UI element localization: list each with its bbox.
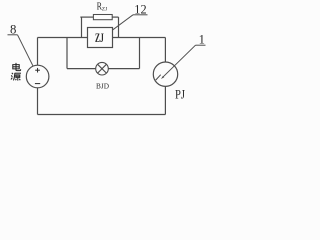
wire lamp branch right horizontal [108, 68, 139, 70]
wire bottom segment [38, 114, 166, 116]
device PJ arrowhead [161, 76, 164, 79]
wire left-top segment [37, 38, 39, 66]
wire right-top segment [164, 38, 166, 63]
svg-text:ZJ: ZJ [95, 31, 104, 45]
svg-text:PJ: PJ [175, 87, 185, 102]
wire right-bottom segment [164, 86, 166, 114]
relay ZJ box [88, 28, 113, 48]
wire top-left segment [38, 37, 88, 39]
callout label 8 [8, 23, 34, 67]
wire resistor left stub [81, 17, 83, 37]
label RZJ [97, 1, 108, 12]
callout label 1 [163, 33, 205, 77]
power source circle [26, 65, 49, 88]
wire lamp branch left horizontal [67, 68, 96, 70]
lamp BJD [96, 62, 109, 75]
wire resistor left lead [80, 16, 93, 18]
svg-text:12: 12 [134, 2, 146, 17]
power source minus [35, 83, 40, 85]
device PJ inner stroke [156, 75, 161, 80]
svg-text:1: 1 [199, 33, 205, 47]
wire resistor right lead [112, 16, 118, 18]
label dianyuan (power supply) char DIAN [13, 63, 21, 71]
svg-text:BJD: BJD [96, 81, 109, 90]
power source plus [35, 68, 40, 73]
wire left-bottom segment [37, 88, 39, 115]
svg-text:ZJ: ZJ [102, 6, 108, 12]
wire lamp branch right stub [139, 38, 141, 69]
wire resistor right stub [118, 17, 120, 37]
device PJ circle [153, 62, 177, 86]
label dianyuan (power supply) char YUAN [11, 73, 21, 81]
wire lamp branch left stub [66, 38, 68, 69]
wire top-right segment [113, 37, 166, 39]
resistor RZJ body [93, 15, 112, 20]
callout label 12 [113, 2, 148, 30]
